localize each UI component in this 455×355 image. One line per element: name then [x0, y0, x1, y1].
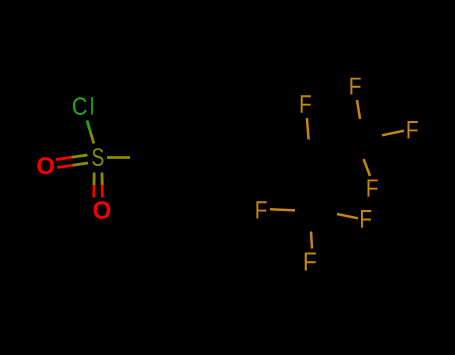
bond C-F5 stub	[270, 209, 295, 210]
atom label F1 (fluorine on central CF carbon)	[301, 95, 311, 112]
atom label S (sulfonyl sulfur)	[92, 148, 103, 166]
atom label O (bottom oxygen of S=O)	[94, 201, 111, 219]
bond C-F2 stub	[357, 100, 360, 119]
atom label F6 (lower CF3 fluorine, right)	[361, 210, 371, 228]
bond C-F6 stub	[337, 214, 358, 218]
atom label F7 (lower CF3 fluorine, down)	[305, 253, 316, 271]
bond C-F7 stub	[311, 232, 312, 249]
double bond S=O bottom, left line sulfur half	[93, 173, 96, 186]
atom label F5 (lower CF3 fluorine, left)	[256, 201, 266, 218]
double bond S=O left, lower line sulfur half	[73, 163, 89, 165]
double bond S=O left, lower line oxygen half	[57, 165, 73, 167]
bond S-CH2, sulfur half stub	[107, 156, 130, 159]
double bond S=O bottom, left line oxygen half	[92, 185, 95, 198]
bond C-F4 stub	[364, 159, 371, 176]
double bond S=O bottom, right line sulfur half	[101, 173, 104, 186]
atom label O (left oxygen of S=O)	[37, 157, 54, 174]
atom label F4 (upper CF3 fluorine, down)	[368, 180, 378, 197]
bond C-F3 stub	[382, 131, 404, 136]
double bond S=O left, upper line oxygen half	[56, 157, 72, 159]
atom label F3 (upper CF3 fluorine, right)	[408, 121, 418, 139]
double bond S=O bottom, right line oxygen half	[101, 185, 104, 198]
atom label Cl (chlorine)	[73, 97, 93, 115]
double bond S=O left, upper line sulfur half	[72, 155, 88, 157]
bond Cl-S, sulfur half	[90, 132, 93, 144]
atom label F2 (upper CF3 fluorine, up)	[350, 78, 360, 95]
bond C-F1 stub	[307, 118, 309, 140]
bond Cl-S, chlorine half	[87, 121, 90, 133]
